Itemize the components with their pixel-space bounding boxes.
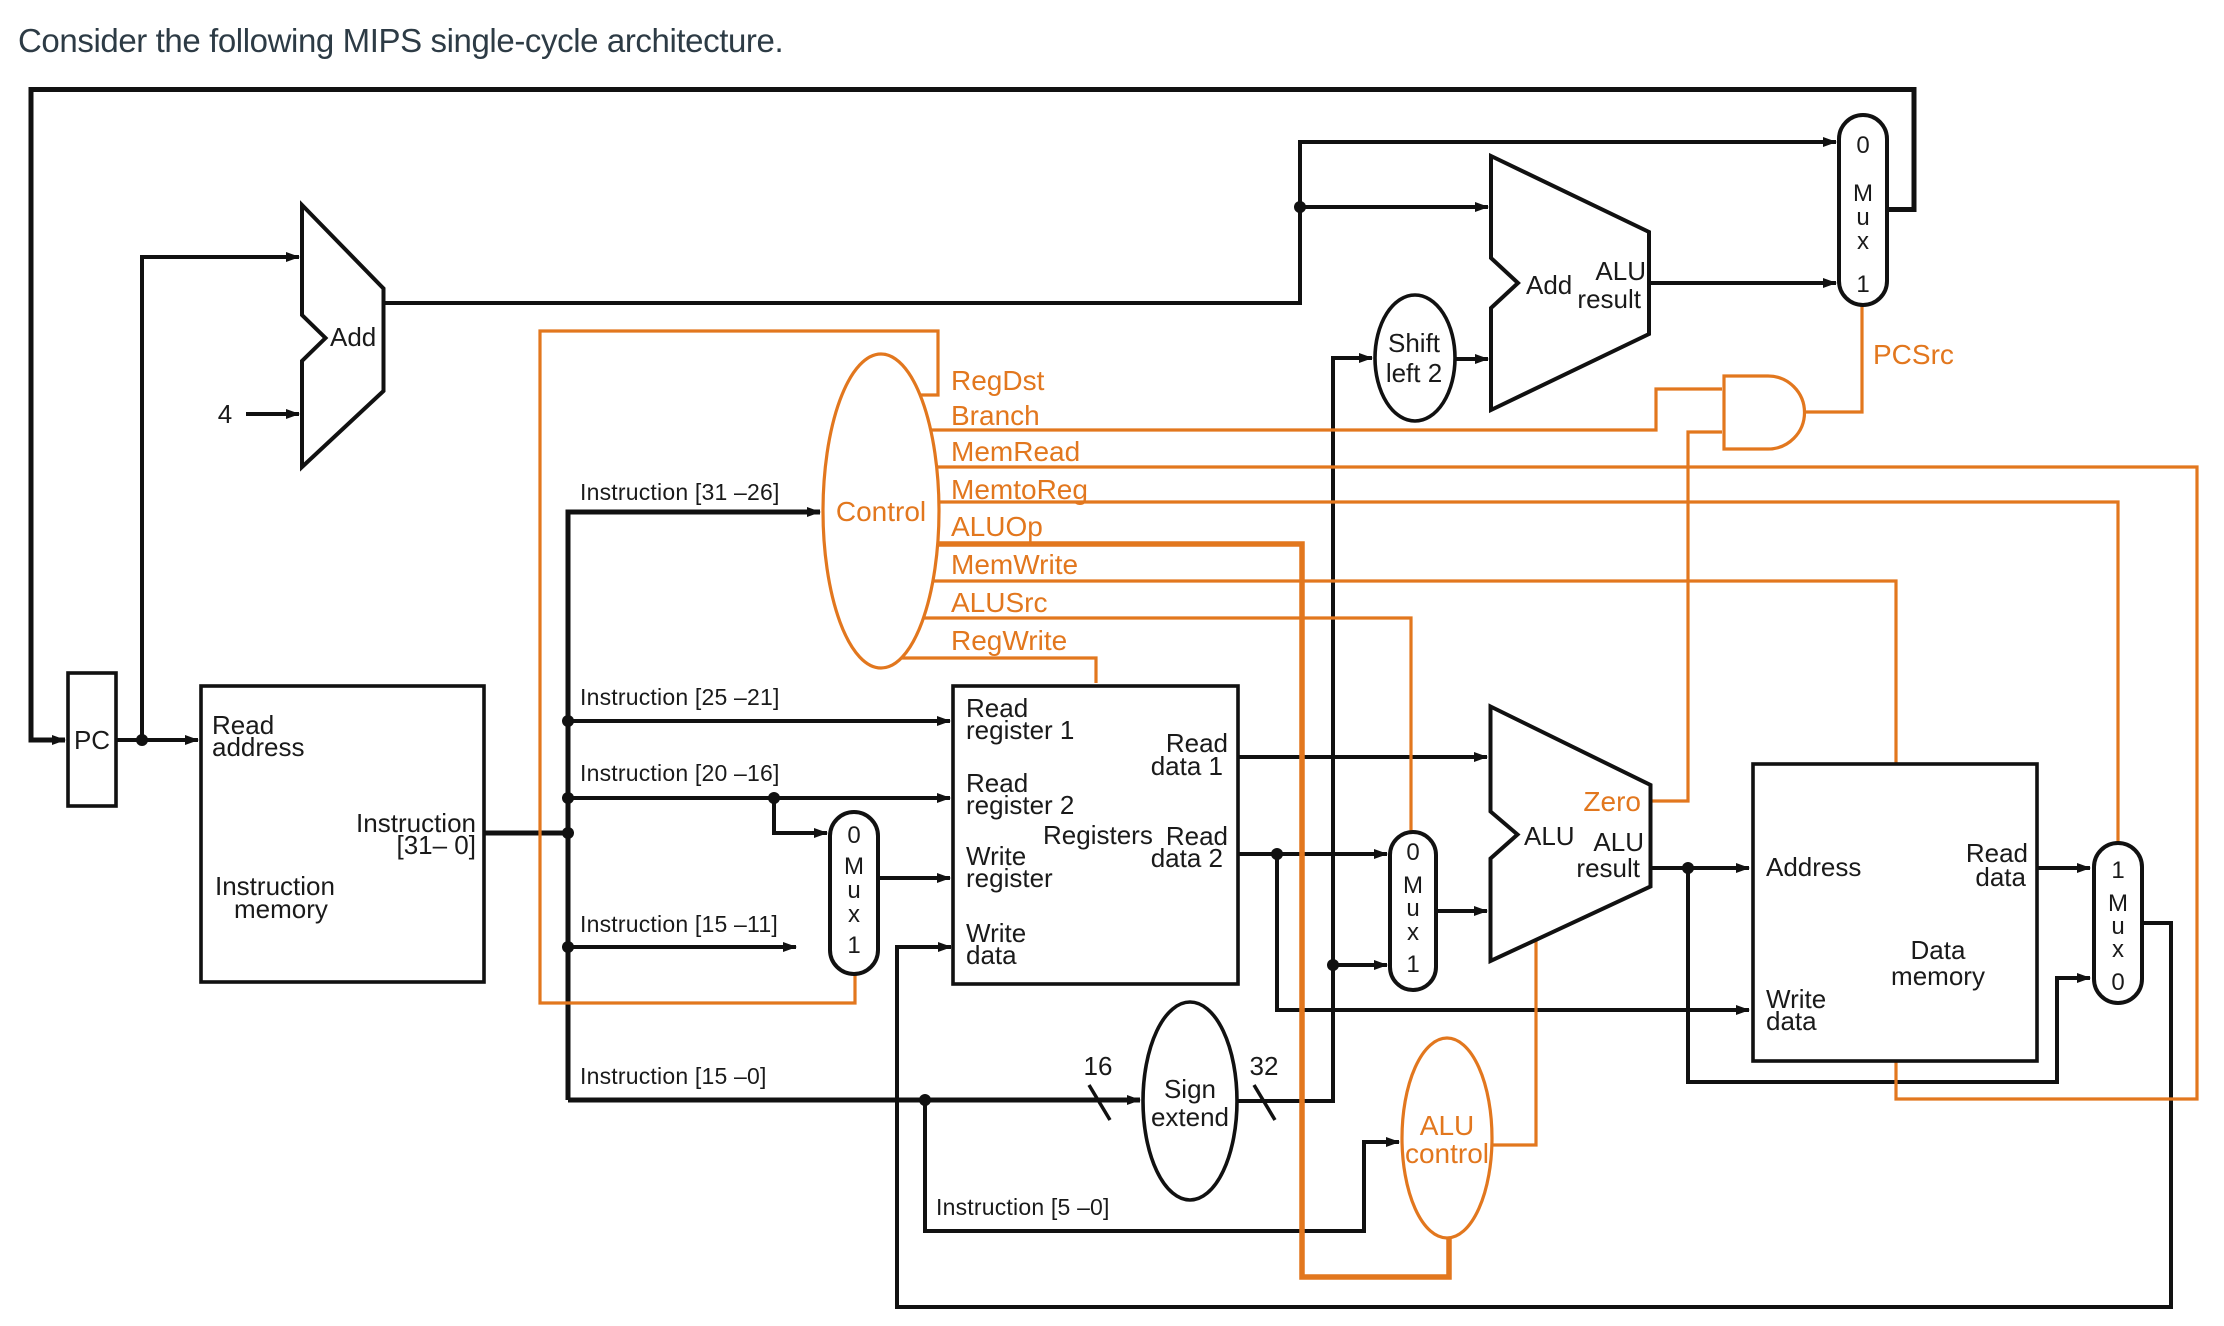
junction: [15-0] branch to ALU control <box>919 1094 931 1106</box>
wire: constant 4 into first Add input 2 <box>246 412 299 416</box>
svg-text:x: x <box>1407 919 1419 946</box>
slash: 16-bit width mark <box>1089 1085 1110 1120</box>
wire: Instruction [20-16] to Read register 2 <box>568 796 950 800</box>
wire: Data memory Read data to right mux 1 input <box>2037 866 2090 870</box>
svg-text:u: u <box>1856 204 1869 231</box>
svg-text:0: 0 <box>2111 969 2124 996</box>
wire: PC-source feedback from top mux output around top and left to PC input <box>31 90 1914 741</box>
AND gate (branch and zero) <box>1724 376 1805 449</box>
svg-text:left 2: left 2 <box>1386 358 1442 388</box>
wire: Read data 2 to ALUSrc mux 0 input <box>1238 852 1387 856</box>
junction: [20-16] branch to RegDst mux <box>768 792 780 804</box>
wire: PC+4 branch to second Add top input <box>1300 205 1488 209</box>
junction: PC+4 branch to second Add <box>1294 201 1306 213</box>
svg-text:register: register <box>966 863 1053 893</box>
wire: ALU control output to ALU operation input <box>1491 938 1536 1145</box>
wire: Instruction [15-0] to Sign extend <box>568 1098 1140 1103</box>
wire: ALU result to Data memory Address <box>1650 866 1749 870</box>
svg-text:data: data <box>1975 862 2026 892</box>
svg-text:16: 16 <box>1084 1051 1113 1081</box>
adder Add (PC+4) <box>302 205 384 467</box>
oval: ALU control unit <box>1402 1038 1492 1238</box>
svg-text:result: result <box>1577 284 1641 314</box>
svg-text:data 2: data 2 <box>1151 843 1223 873</box>
wire: Shift left 2 output to second Add bottom input <box>1454 357 1488 361</box>
slash: 32-bit width mark <box>1254 1085 1275 1120</box>
svg-text:1: 1 <box>1856 271 1869 298</box>
wire: MemRead control to Data memory read port <box>936 467 2197 1099</box>
svg-text:Instruction [15 –0]: Instruction [15 –0] <box>580 1063 767 1089</box>
svg-text:Address: Address <box>1766 852 1861 882</box>
svg-text:memory: memory <box>1891 961 1985 991</box>
wire: ALU result bypass to right mux 0 input <box>1688 868 2090 1082</box>
svg-text:Sign: Sign <box>1164 1074 1216 1104</box>
junction: ALU result branch <box>1682 862 1694 874</box>
wire: PC output to Instruction memory Read address <box>116 738 198 742</box>
svg-text:x: x <box>2112 936 2124 963</box>
svg-text:RegWrite: RegWrite <box>951 625 1067 656</box>
ALU (main) <box>1491 707 1651 962</box>
svg-text:M: M <box>844 853 864 880</box>
svg-text:Branch: Branch <box>951 400 1040 431</box>
svg-text:0: 0 <box>1406 839 1419 866</box>
svg-text:Instruction [25 –21]: Instruction [25 –21] <box>580 684 780 710</box>
svg-text:x: x <box>1857 228 1869 255</box>
junction: instruction bus to [20-16] <box>562 792 574 804</box>
block: Registers <box>953 686 1238 984</box>
mux: PCSrc mux (top right) <box>1839 115 1887 305</box>
oval: Control unit <box>823 354 939 668</box>
svg-text:RegDst: RegDst <box>951 365 1045 396</box>
wire: Read data 1 to ALU input 1 <box>1238 755 1487 759</box>
svg-text:Zero: Zero <box>1583 786 1641 817</box>
junction: instruction bus to [25-21] <box>562 715 574 727</box>
wire: instruction bus vertical with branch to Control <box>568 512 820 1100</box>
svg-text:Instruction [5 –0]: Instruction [5 –0] <box>936 1194 1110 1220</box>
svg-text:x: x <box>848 901 860 928</box>
wire: Instruction [15-11] into RegDst mux 1 input <box>568 945 796 949</box>
svg-text:u: u <box>1406 895 1419 922</box>
register PC <box>68 673 116 806</box>
svg-text:Control: Control <box>836 496 926 527</box>
svg-text:data: data <box>966 940 1017 970</box>
oval: Shift left 2 <box>1375 295 1455 421</box>
junction: Read data 2 branch <box>1271 848 1283 860</box>
svg-text:0: 0 <box>1856 132 1869 159</box>
svg-text:ALU: ALU <box>1420 1110 1474 1141</box>
oval: Sign extend <box>1143 1002 1237 1200</box>
block: Instruction memory <box>201 686 484 982</box>
svg-text:control: control <box>1405 1138 1489 1169</box>
svg-text:32: 32 <box>1250 1051 1279 1081</box>
svg-text:[31– 0]: [31– 0] <box>396 830 476 860</box>
wire: instruction bus from Instruction memory output <box>484 831 568 836</box>
svg-text:register 1: register 1 <box>966 715 1074 745</box>
svg-text:MemtoReg: MemtoReg <box>951 474 1088 505</box>
svg-text:Instruction [20 –16]: Instruction [20 –16] <box>580 760 780 786</box>
svg-text:1: 1 <box>2111 857 2124 884</box>
wire: Instruction [20-16] step down into RegDst mux 0 input <box>774 798 827 833</box>
svg-text:Registers: Registers <box>1043 820 1153 850</box>
mux: RegDst mux <box>830 812 878 974</box>
block: Data memory <box>1753 764 2037 1061</box>
wire: PCSrc from AND gate output to top mux select <box>1806 306 1862 412</box>
svg-text:memory: memory <box>234 894 328 924</box>
svg-text:address: address <box>212 732 305 762</box>
svg-text:ALU: ALU <box>1595 256 1646 286</box>
svg-text:Instruction [31 –26]: Instruction [31 –26] <box>580 479 780 505</box>
svg-text:result: result <box>1576 853 1640 883</box>
junction: PC output node <box>136 734 148 746</box>
wire: PC value up to first Add input 1 <box>142 257 299 740</box>
wire: Read data 2 branch down to Data memory Write data <box>1277 854 1749 1010</box>
svg-text:MemWrite: MemWrite <box>951 549 1078 580</box>
svg-text:data: data <box>1766 1006 1817 1036</box>
wire: PC+4 from Add output to top mux 0 input <box>383 142 1836 303</box>
svg-text:Shift: Shift <box>1388 328 1441 358</box>
svg-text:register 2: register 2 <box>966 790 1074 820</box>
svg-text:M: M <box>1853 180 1873 207</box>
junction: instruction bus to [15-11] <box>562 941 574 953</box>
svg-text:u: u <box>847 877 860 904</box>
svg-text:ALUOp: ALUOp <box>951 511 1043 542</box>
adder Add (branch target) <box>1491 156 1649 410</box>
wire: MemtoReg control to right mux select <box>938 502 2118 842</box>
wire: sign-extended immediate branch to ALUSrc mux 1 input <box>1333 963 1387 967</box>
wire: Zero flag from ALU to AND gate input 2 <box>1650 432 1722 801</box>
wire: ALUOp control to ALU control unit <box>937 544 1449 1277</box>
svg-text:0: 0 <box>847 822 860 849</box>
wire: ALUSrc control to ALUSrc mux select <box>923 618 1411 831</box>
svg-text:PC: PC <box>74 725 110 755</box>
svg-text:Instruction [15 –11]: Instruction [15 –11] <box>580 911 778 937</box>
wire: RegDst control to RegDst mux select <box>540 331 938 1003</box>
wire: branch target from second Add to top mux 1 input <box>1649 281 1836 285</box>
svg-text:MemRead: MemRead <box>951 436 1080 467</box>
wire: MemWrite control to Data memory write port <box>932 581 1896 763</box>
svg-text:PCSrc: PCSrc <box>1873 339 1954 370</box>
svg-text:Add: Add <box>330 322 376 352</box>
svg-text:ALUSrc: ALUSrc <box>951 587 1047 618</box>
wire: sign-extended immediate up to Shift left 2 <box>1237 358 1372 1101</box>
junction: sign-extend branch to ALUSrc mux <box>1327 959 1339 971</box>
wire: write-back from right mux output to Registers Write data <box>897 923 2171 1307</box>
wire: Instruction [5-0] to ALU control <box>925 1100 1399 1231</box>
wire: Instruction [25-21] to Read register 1 <box>568 719 950 723</box>
junction: instruction bus at IM output <box>562 827 574 839</box>
wire: ALUSrc mux output to ALU input 2 <box>1436 909 1487 913</box>
svg-text:4: 4 <box>218 399 232 429</box>
wire: RegWrite control to Registers write enable <box>901 658 1096 683</box>
svg-text:extend: extend <box>1151 1102 1229 1132</box>
mux: MemtoReg mux (right) <box>2094 843 2142 1003</box>
svg-text:ALU: ALU <box>1524 821 1575 851</box>
svg-text:Add: Add <box>1526 270 1572 300</box>
svg-text:1: 1 <box>847 932 860 959</box>
svg-text:1: 1 <box>1406 951 1419 978</box>
wire: Branch control to AND gate input 1 <box>930 389 1722 430</box>
wire: RegDst mux output to Write register <box>878 876 950 880</box>
mux: ALUSrc mux <box>1390 832 1436 990</box>
svg-text:data 1: data 1 <box>1151 751 1223 781</box>
